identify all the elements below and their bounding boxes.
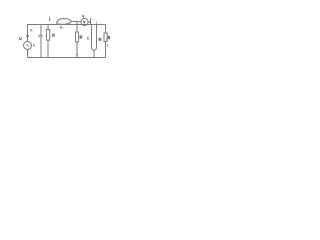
label I above R1 branch	[49, 18, 51, 22]
arrowhead on R3 branch bottom	[76, 54, 78, 56]
capacitor C plate bottom	[38, 36, 42, 38]
wire oval to meter	[71, 20, 81, 22]
wattmeter current coil (oval)	[57, 19, 72, 25]
wire capacitor branch top	[40, 25, 42, 36]
label right of R2	[108, 36, 110, 39]
resistor R1	[46, 30, 49, 41]
wire stub down to rail at x77	[76, 22, 78, 25]
label node a below rail left	[30, 29, 32, 32]
wire coil merge curve	[92, 48, 97, 51]
resistor R2	[104, 33, 107, 42]
wire below source	[27, 49, 29, 57]
label star above meter	[82, 15, 84, 17]
label near coil right	[99, 38, 101, 41]
wire resistor R1 branch top	[47, 25, 49, 30]
wire left vertical to source	[27, 25, 29, 42]
label i right of source	[33, 43, 35, 46]
wire merge stem to bottom rail	[93, 50, 95, 57]
label near coil left	[88, 37, 89, 40]
capacitor C plate top	[38, 34, 42, 36]
wire resistor R3 branch bottom	[76, 42, 78, 58]
label L below oval	[61, 26, 63, 28]
label R3	[80, 36, 82, 39]
wire top rail	[28, 24, 106, 26]
resistor R3	[76, 32, 79, 42]
wire voltage-coil left lead	[91, 25, 93, 48]
wire meter right exit	[88, 21, 90, 23]
wattmeter W	[81, 18, 88, 25]
wire resistor R2 branch bottom	[105, 42, 107, 58]
wire voltage-coil right lead	[96, 25, 98, 48]
arrowhead at meter exit	[90, 22, 92, 25]
wire bottom rail	[28, 57, 106, 59]
arrowhead on source branch	[26, 35, 28, 38]
ac source u	[24, 41, 32, 49]
wire resistor R2 branch top	[105, 25, 107, 34]
label u left of source	[20, 37, 22, 39]
mark inside meter	[83, 21, 85, 24]
tick below R2	[106, 44, 108, 46]
label R1	[53, 34, 55, 37]
faint tick above rail x96.5	[96, 21, 98, 24]
wire resistor R1 branch bottom	[47, 41, 49, 58]
wire resistor R3 branch top	[76, 25, 78, 33]
wire capacitor branch bottom	[40, 38, 42, 58]
